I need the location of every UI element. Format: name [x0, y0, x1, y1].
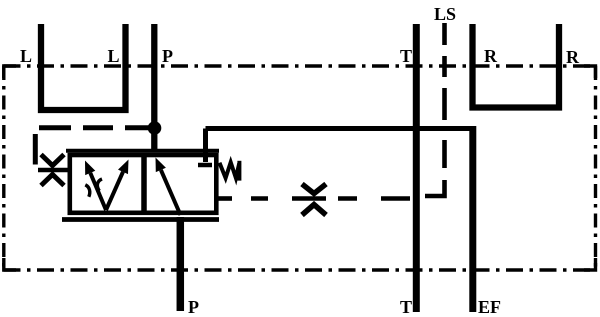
svg-text:L: L	[20, 46, 32, 66]
svg-text:LS: LS	[434, 4, 456, 24]
svg-text:T: T	[400, 46, 412, 66]
svg-text:EF: EF	[478, 297, 501, 317]
svg-text:R: R	[484, 46, 498, 66]
svg-text:L: L	[108, 46, 120, 66]
svg-text:T: T	[400, 297, 412, 317]
svg-text:P: P	[162, 46, 173, 66]
svg-text:R: R	[566, 47, 580, 67]
svg-text:P: P	[188, 297, 199, 317]
